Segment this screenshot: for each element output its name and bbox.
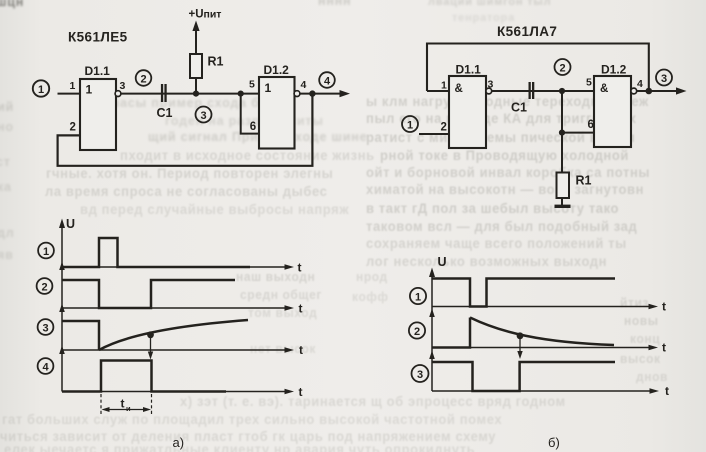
svg-text:2: 2 bbox=[140, 74, 146, 86]
pin 3 label D1.1 right bbox=[488, 79, 494, 91]
wire R1 to node 3 bbox=[195, 78, 197, 94]
diagram a: node 3 (circled) bbox=[38, 319, 54, 335]
wire output right with arrow bbox=[637, 87, 687, 94]
diagram a: threshold drop line with arrow bbox=[148, 336, 153, 360]
svg-text:1: 1 bbox=[43, 246, 49, 258]
label D1.2 right bbox=[601, 63, 627, 77]
svg-text:1: 1 bbox=[407, 120, 413, 132]
wire branch to pin 6 bbox=[241, 94, 259, 134]
capacitor C1 bbox=[161, 84, 167, 102]
svg-text:пит: пит bbox=[204, 9, 222, 21]
gate D1.2 (NAND element) bbox=[594, 76, 631, 147]
svg-text:D1.2: D1.2 bbox=[264, 63, 290, 77]
wire branch to pin 6 right bbox=[562, 132, 594, 134]
power rail +Upit label bbox=[189, 9, 222, 21]
svg-text:C1: C1 bbox=[157, 106, 173, 120]
svg-text:3: 3 bbox=[120, 80, 126, 92]
diagram a: t_i measure arrows bbox=[102, 407, 152, 412]
svg-text:К561ЛА7: К561ЛА7 bbox=[497, 24, 557, 39]
svg-text:К561ЛЕ5: К561ЛЕ5 bbox=[68, 30, 128, 45]
diagram b: vertical axis bbox=[429, 268, 435, 392]
svg-text:1: 1 bbox=[415, 292, 421, 304]
svg-text:t: t bbox=[662, 341, 666, 355]
svg-text:4: 4 bbox=[637, 78, 643, 90]
svg-text:C1: C1 bbox=[511, 101, 527, 115]
junction output node 4 bbox=[309, 90, 315, 96]
svg-text:D1.1: D1.1 bbox=[85, 64, 111, 78]
gate D1.2 (NOR element) bbox=[259, 77, 295, 149]
pin 1 label D1.1 right bbox=[441, 80, 447, 92]
junction R1/wire bbox=[193, 91, 199, 97]
svg-text:t: t bbox=[299, 385, 303, 399]
junction output node 3 right bbox=[646, 88, 653, 95]
node 3 right (circled) bbox=[656, 70, 672, 86]
junction at pin5 branch bbox=[238, 91, 244, 97]
svg-text:3: 3 bbox=[42, 323, 48, 335]
diagram b: node 3 (circled) bbox=[412, 365, 429, 382]
svg-text:2: 2 bbox=[441, 122, 447, 134]
svg-text:б): б) bbox=[548, 435, 560, 450]
svg-text:+U: +U bbox=[189, 9, 204, 21]
svg-text:t: t bbox=[665, 384, 669, 398]
svg-text:2: 2 bbox=[41, 282, 47, 294]
diagram b: threshold drop line with arrow bbox=[517, 337, 522, 359]
svg-text:&: & bbox=[600, 83, 608, 95]
pin 6 label D1.2 right bbox=[588, 119, 594, 131]
svg-text:t: t bbox=[299, 343, 303, 357]
diagram b: waveform 2 (RC discharge curve) bbox=[432, 318, 614, 348]
gate D1.1 (NAND element) bbox=[449, 76, 486, 148]
inversion bubble D1.1 output bbox=[115, 91, 121, 97]
node 1 right (circled) bbox=[402, 116, 418, 132]
diagram a: time axis row 2 bbox=[62, 302, 303, 316]
node 2 right (circled) bbox=[555, 59, 571, 75]
wire R1 to ground bbox=[561, 198, 563, 205]
pin 6 label D1.2 bbox=[250, 121, 256, 133]
diagram a: caption a) bbox=[173, 435, 185, 450]
diagram b: waveform 1 (input negative pulse) bbox=[432, 279, 615, 307]
diagram a: dashed extent lines for t_i bbox=[101, 394, 152, 415]
label D1.1 bbox=[85, 64, 111, 78]
svg-text:U: U bbox=[66, 217, 75, 231]
inversion bubble D1.1 right output bbox=[486, 88, 492, 94]
diagram b: node 2 (circled) bbox=[409, 322, 425, 338]
inversion bubble D1.2 output bbox=[294, 91, 300, 97]
diagram b: node 1 (circled) bbox=[410, 288, 426, 304]
diagram a: label t_i bbox=[121, 397, 132, 414]
diagram a: node 4 (circled) bbox=[38, 358, 54, 374]
diagram b: time axis row 3 bbox=[432, 384, 669, 398]
svg-text:4: 4 bbox=[42, 362, 49, 374]
svg-text:t: t bbox=[298, 261, 302, 275]
wire node 2 down to R1 bbox=[561, 91, 563, 173]
label C1 bbox=[157, 106, 173, 120]
svg-text:1: 1 bbox=[441, 80, 447, 92]
diagram b: waveform 3 (output pulse) bbox=[432, 362, 615, 391]
svg-text:t: t bbox=[662, 300, 666, 314]
diagram a: waveform 4 (output pulse) bbox=[62, 361, 226, 392]
node 1 (input terminal, circled) bbox=[33, 80, 49, 96]
svg-text:2: 2 bbox=[414, 326, 420, 338]
wire main horizontal node 3 net bbox=[121, 93, 259, 95]
svg-text:R1: R1 bbox=[576, 174, 592, 188]
pin 2 label D1.1 right bbox=[441, 122, 447, 134]
diagram a: threshold dot on curve bbox=[147, 331, 154, 338]
junction pin 6 branch right bbox=[559, 130, 565, 136]
svg-text:6: 6 bbox=[250, 121, 256, 133]
diagram b: U axis label bbox=[438, 255, 447, 269]
diagram b: threshold dot on curve bbox=[517, 332, 524, 339]
svg-text:2: 2 bbox=[70, 122, 76, 134]
node 3 (circled) bbox=[196, 107, 212, 123]
svg-text:5: 5 bbox=[249, 79, 255, 91]
diagram b: time axis row 2 bbox=[432, 341, 666, 355]
label R1 right bbox=[576, 174, 592, 188]
wire input to D1.1 pin 1 bbox=[58, 93, 81, 95]
svg-text:3: 3 bbox=[200, 110, 206, 122]
svg-text:2: 2 bbox=[559, 63, 565, 75]
wire input to pin 2 right bbox=[419, 133, 449, 135]
svg-text:U: U bbox=[438, 255, 447, 269]
IC type label K561LE5 bbox=[68, 30, 128, 45]
feedback wire top (output 4 to pin 1) bbox=[427, 44, 649, 92]
svg-text:5: 5 bbox=[586, 77, 592, 89]
diagram a: time axis row 4 bbox=[62, 385, 303, 399]
node 2 (circled) bbox=[136, 70, 152, 86]
diagram a: waveform 2 bbox=[62, 280, 235, 308]
svg-text:1: 1 bbox=[86, 83, 93, 97]
power arrow up bbox=[192, 21, 199, 55]
svg-text:3: 3 bbox=[417, 369, 423, 381]
diagram a: node 2 (circled) bbox=[37, 278, 53, 294]
svg-text:3: 3 bbox=[661, 73, 667, 85]
label D1.2 bbox=[264, 63, 290, 77]
svg-text:а): а) bbox=[173, 435, 185, 450]
diagram a: waveform 3 (RC charge curve) bbox=[62, 320, 248, 350]
pin 4 label D1.2 right bbox=[637, 78, 643, 90]
svg-text:R1: R1 bbox=[208, 55, 224, 69]
svg-text:D1.2: D1.2 bbox=[601, 63, 627, 77]
diagram a: time axis row 1 bbox=[62, 261, 302, 275]
svg-text:&: & bbox=[455, 83, 463, 95]
capacitor C1 right bbox=[529, 82, 535, 99]
svg-text:1: 1 bbox=[38, 84, 44, 96]
pin 4 label D1.2 bbox=[301, 79, 307, 91]
resistor R1 right bbox=[557, 173, 570, 199]
diagram a: time axis row 3 bbox=[62, 343, 303, 357]
gate D1.1 (NOR element) bbox=[80, 79, 116, 150]
ground bbox=[555, 205, 571, 208]
node 4 (circled) bbox=[319, 72, 335, 88]
diagram a: node 1 (circled) bbox=[38, 243, 54, 259]
svg-text:3: 3 bbox=[488, 79, 494, 91]
pin 1 label D1.1 bbox=[70, 80, 76, 92]
label C1 right bbox=[511, 101, 527, 115]
svg-text:6: 6 bbox=[588, 119, 594, 131]
pin 3 label D1.1 bbox=[120, 80, 126, 92]
inversion bubble D1.2 right output bbox=[631, 88, 637, 94]
label D1.1 right bbox=[456, 63, 482, 77]
feedback wire output to pin 2 bbox=[58, 94, 313, 166]
diagram a: vertical axis bbox=[59, 219, 65, 392]
svg-text:1: 1 bbox=[70, 80, 76, 92]
label R1 bbox=[208, 55, 224, 69]
svg-text:D1.1: D1.1 bbox=[456, 63, 482, 77]
svg-text:и: и bbox=[126, 404, 131, 413]
svg-text:4: 4 bbox=[324, 76, 331, 88]
pin 5 label D1.2 bbox=[249, 79, 255, 91]
pin 2 label D1.1 bbox=[70, 122, 76, 134]
wire output with arrow bbox=[300, 90, 350, 97]
svg-text:4: 4 bbox=[301, 79, 307, 91]
svg-text:t: t bbox=[121, 397, 125, 411]
pin 5 label D1.2 right bbox=[586, 77, 592, 89]
diagram a: waveform 1 (input pulse) bbox=[62, 238, 250, 267]
junction node 2 on wire bbox=[559, 88, 565, 94]
resistor R1 bbox=[190, 54, 202, 78]
diagram a: U axis label bbox=[66, 217, 75, 231]
diagram b: caption b) bbox=[548, 435, 560, 450]
svg-text:t: t bbox=[299, 302, 303, 316]
wire main horizontal right (node 2 net) bbox=[492, 90, 594, 92]
diagram b: time axis row 1 bbox=[432, 300, 666, 314]
IC type label K561LA7 bbox=[497, 24, 557, 39]
svg-text:1: 1 bbox=[265, 81, 272, 95]
